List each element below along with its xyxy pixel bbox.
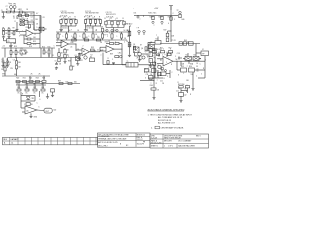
svg-text:K6: K6 [194, 55, 196, 57]
junction right a [155, 61, 156, 62]
resistor RB2 [94, 20, 96, 24]
resistor R22 [29, 81, 33, 83]
transformer T1 [126, 63, 138, 68]
resistor RA0 [60, 20, 62, 24]
wire R12 bottom [10, 55, 12, 58]
wire bus F [26, 83, 80, 85]
junction bus D a [68, 32, 69, 33]
wire U6 -in [100, 50, 106, 52]
company table row lines [98, 136, 151, 138]
svg-text:o: o [26, 16, 27, 18]
wire U1 -in [20, 34, 26, 36]
wire R10 left [24, 38, 27, 40]
wire up to U6 [99, 47, 101, 52]
resistor R50 [152, 51, 156, 53]
svg-text:R43: R43 [150, 17, 153, 19]
resistor R10 [27, 38, 31, 40]
svg-text:5: 5 [22, 12, 23, 14]
wire right edge vert [204, 56, 206, 78]
wire U1 +in [16, 31, 26, 33]
wire to K8 [34, 29, 39, 31]
wire right vert [129, 26, 131, 54]
wire lad1 gnd stem [60, 26, 62, 29]
svg-text:ALL FILTERS OUT: ALL FILTERS OUT [158, 122, 176, 125]
op-amp U1 [26, 30, 33, 37]
relay K7 X mark [134, 47, 140, 53]
wire chain top2 [167, 31, 169, 33]
ground G3 [2, 36, 5, 39]
diode CR3 [161, 67, 163, 69]
wire RC rail [106, 20, 124, 22]
wire drop from U5 [176, 61, 178, 70]
resistor R36 [70, 66, 72, 70]
wire U2 gnd [30, 113, 32, 115]
wire fb left [106, 43, 110, 45]
wire Q3 out [141, 53, 148, 55]
wire RB0 down [85, 23, 87, 26]
wire TP13 stem [138, 33, 140, 35]
svg-text:1K: 1K [59, 34, 61, 36]
wire U2 -in [22, 111, 25, 113]
svg-text:R: R [15, 21, 17, 23]
wire R52 down [166, 52, 168, 57]
svg-text:J1: J1 [1, 10, 3, 12]
wire group1 drop [68, 26, 70, 32]
svg-text:Q2: Q2 [84, 54, 86, 56]
wire tie2 [181, 90, 188, 92]
wire K6 tie [195, 59, 197, 62]
resistor R68 [157, 54, 160, 56]
test point TP4 [8, 28, 10, 30]
revision table midline [3, 140, 98, 142]
wire R1 to C1 [10, 11, 13, 13]
relay K6 X mark [193, 57, 199, 61]
power rail symbol [169, 6, 173, 11]
wire r1-r2 d [42, 83, 44, 90]
svg-text:R23: R23 [36, 78, 39, 80]
wire C15 tail [113, 63, 115, 64]
resistor R38 [68, 83, 72, 85]
svg-text:R2: R2 [20, 9, 22, 11]
svg-text:1K: 1K [95, 34, 97, 36]
svg-text:R44: R44 [159, 17, 162, 19]
svg-text:R21: R21 [23, 78, 26, 80]
wire K5 top stub [187, 53, 189, 57]
resistor RD6 [111, 34, 113, 38]
svg-text:R57 R58: R57 R58 [178, 84, 184, 86]
svg-text:+15: +15 [2, 45, 5, 47]
wire main bus A [2, 47, 56, 49]
wire U3 to U4 [75, 44, 77, 51]
svg-text:2K: 2K [36, 23, 39, 25]
wire C17 stub [152, 49, 155, 51]
wire U6 out [114, 48, 122, 50]
wire down run2 [153, 81, 155, 88]
wire RA rail [61, 18, 76, 20]
svg-text:-: - [133, 8, 134, 10]
wire left drop [16, 22, 18, 28]
svg-text:4.7K: 4.7K [33, 44, 37, 46]
resistor R40 [128, 31, 131, 36]
wire C1 to R2 [14, 11, 19, 13]
svg-text:.05: .05 [70, 47, 72, 49]
svg-text:R9: R9 [13, 28, 15, 30]
resistor R7 [3, 31, 5, 35]
svg-text:C11: C11 [146, 74, 149, 76]
svg-text:OUT: OUT [45, 111, 50, 113]
wire C6 top [79, 53, 81, 55]
junction right b [177, 61, 178, 62]
svg-text:1K: 1K [61, 58, 64, 60]
wire inv node [23, 35, 25, 44]
svg-text:6: 6 [64, 41, 65, 43]
resistor R2 [19, 11, 23, 13]
svg-text:R11: R11 [33, 41, 36, 43]
wire down run [153, 65, 155, 81]
svg-text:K5A: K5A [181, 63, 185, 66]
resistor R28 [41, 89, 45, 91]
ground G22 [9, 45, 12, 48]
svg-text:10K: 10K [18, 67, 22, 69]
svg-text:C3: C3 [31, 17, 33, 19]
op-amp U4 [82, 48, 90, 56]
svg-text:R: R [171, 64, 173, 66]
wire TP14 stem [143, 33, 145, 35]
wire R15 bottom [48, 54, 50, 58]
svg-text:R22: R22 [29, 78, 32, 80]
svg-text:GALION HALCHER: GALION HALCHER [178, 145, 195, 148]
wire R11 to fb [31, 43, 40, 45]
junction bus D right [129, 32, 130, 33]
resistor R66 [64, 54, 66, 58]
relay K7 [134, 47, 140, 53]
resistor R14 [43, 50, 45, 54]
test point TP10 [179, 11, 181, 13]
svg-text:1K: 1K [17, 52, 20, 54]
wire U5 +in [157, 58, 163, 60]
wire bus E [56, 39, 127, 41]
ground G21 [51, 94, 54, 97]
wire C12 gnd [180, 96, 182, 99]
capacitor C18 [153, 62, 156, 65]
svg-text:GRN: GRN [2, 74, 6, 76]
wire main bus B [8, 57, 80, 59]
svg-text:R52: R52 [169, 47, 172, 49]
resistor R39 [110, 42, 114, 44]
svg-text:TP: TP [202, 53, 205, 55]
capacitor C15 [112, 62, 115, 63]
wire down to second bus [24, 12, 26, 16]
wire TP3 to K9 [3, 38, 5, 41]
svg-text:2.: 2. [151, 128, 153, 130]
wire C4 bottom [7, 62, 9, 65]
resistor R26 [25, 89, 29, 91]
svg-text:TP: TP [2, 28, 4, 30]
svg-text:C9: C9 [77, 49, 79, 51]
svg-text:5K: 5K [178, 88, 181, 90]
svg-text:5K: 5K [185, 88, 188, 90]
svg-text:CR: CR [26, 22, 29, 24]
svg-text:R29: R29 [100, 27, 103, 29]
wire ladder rail 1 [21, 95, 35, 97]
svg-text:C10: C10 [149, 67, 152, 69]
capacitor C9 [197, 69, 198, 72]
wire U6 +in [100, 46, 106, 48]
svg-text:1: 1 [98, 36, 99, 38]
svg-text:K7: K7 [140, 45, 142, 47]
wire R57 down [180, 88, 182, 93]
svg-text:o: o [156, 34, 157, 36]
svg-text:+15V: +15V [154, 8, 159, 10]
ground G11 [149, 65, 152, 68]
wire RD2 bottom [74, 38, 76, 40]
resistor R8 [8, 31, 10, 35]
svg-text:1W: 1W [10, 68, 13, 70]
wire out rail [185, 60, 205, 62]
revision table column dividers [10, 137, 97, 144]
svg-text:1K: 1K [12, 52, 15, 54]
wire R56 gnd [150, 63, 152, 65]
junction top bus b [34, 12, 35, 13]
svg-text:1: 1 [71, 36, 72, 38]
wire row2 stub [38, 91, 40, 97]
wire C9 right [199, 69, 206, 71]
svg-text:o: o [157, 80, 158, 82]
wire to Q4 [135, 55, 142, 57]
svg-text:TP: TP [8, 28, 10, 30]
svg-text:o: o [19, 24, 20, 26]
resistor R56 [149, 59, 152, 63]
resistor R21 [23, 81, 27, 83]
wire to gnd [153, 90, 155, 96]
wire inner drop [157, 70, 159, 78]
wire D join [27, 20, 29, 24]
resistor R13 [15, 51, 17, 55]
svg-text:5K: 5K [21, 55, 24, 57]
svg-text:R: R [156, 83, 158, 85]
wire K6 top stub [195, 53, 197, 57]
test point TP13 [138, 30, 140, 32]
diode network D2 [20, 23, 24, 26]
resistor R12 [10, 51, 12, 55]
svg-text:o o: o o [62, 25, 64, 27]
svg-text:1K: 1K [26, 93, 29, 95]
svg-text:5K: 5K [59, 64, 62, 66]
wire row1 [16, 81, 42, 83]
svg-text:C12: C12 [176, 91, 179, 93]
svg-text:J2: J2 [202, 49, 204, 51]
junction right run [154, 80, 155, 81]
resistor RB0 [84, 20, 86, 24]
resistor R11 [27, 43, 31, 45]
ground G4 [7, 36, 10, 39]
svg-text:K9: K9 [8, 41, 10, 43]
wire C16 down [52, 92, 54, 94]
svg-text:o: o [109, 24, 110, 26]
company table col divider [135, 133, 137, 147]
wire K5 down [180, 61, 182, 66]
svg-text:1: 1 [117, 36, 118, 38]
ground G17 [138, 59, 141, 62]
title block frame [150, 134, 209, 148]
test point TP5 [106, 29, 108, 31]
svg-text:R: R [190, 94, 192, 96]
wire TP1 to bus [10, 9, 12, 13]
wire RD2 top [74, 32, 76, 34]
svg-text:B: B [120, 144, 121, 146]
svg-text:R4: R4 [26, 13, 28, 15]
svg-text:R: R [120, 21, 122, 23]
title block row lines [150, 138, 209, 140]
capacitor C16 [51, 89, 55, 92]
wire TP2 to bus [14, 9, 16, 13]
wire K-gnd drop [192, 72, 194, 88]
capacitor C14 [158, 73, 162, 76]
ground G8 [76, 63, 79, 66]
svg-text:R49: R49 [184, 40, 187, 42]
svg-text:5K: 5K [100, 42, 103, 44]
capacitor C17 [149, 48, 152, 51]
svg-text:2: 2 [57, 41, 58, 43]
resistor R16 [15, 61, 17, 64]
wire R42 down [134, 53, 136, 57]
wire bus C [2, 75, 50, 77]
svg-text:1. TEST CONDITIONS 600 OHMS 1: 1. TEST CONDITIONS 600 OHMS 10K AT INPUT [148, 113, 193, 116]
ground G1 [2, 16, 5, 19]
svg-text:600: 600 [74, 81, 77, 83]
svg-text:600: 600 [54, 110, 57, 112]
wire TP10 to R46 [179, 13, 181, 16]
wire inner vert [169, 70, 171, 78]
relay K6 [193, 57, 199, 61]
wire vert top tie [130, 25, 132, 27]
svg-text:MODEL 15: MODEL 15 [137, 134, 145, 136]
svg-text:R: R [117, 18, 119, 20]
capacitor C8 [183, 42, 186, 45]
wire U5 -in [157, 63, 163, 65]
svg-text:T: T [87, 30, 88, 32]
junction right vert [171, 31, 172, 32]
svg-text:1: 1 [183, 73, 184, 75]
svg-text:R: R [155, 58, 157, 60]
svg-text:2K: 2K [31, 74, 34, 76]
resistor R1 [7, 11, 11, 13]
svg-text:5-20-48: 5-20-48 [151, 138, 157, 140]
resistor R44 [161, 16, 163, 19]
capacitor C11 [149, 76, 153, 80]
svg-text:A5: A5 [27, 109, 29, 112]
svg-text:R: R [108, 58, 110, 60]
resistor R67 [161, 72, 167, 75]
svg-text:R54: R54 [189, 66, 192, 68]
svg-text:10K: 10K [191, 74, 195, 76]
svg-text:R42: R42 [129, 45, 132, 47]
svg-text:C: C [200, 63, 202, 65]
resistor R51 [160, 51, 164, 53]
wire Q3 down [139, 56, 141, 59]
svg-text:2: 2 [154, 76, 155, 78]
wire C19 stub [180, 57, 182, 59]
wire RD3 top [83, 32, 85, 34]
svg-text:ALL TONE AND VOL IN 13: ALL TONE AND VOL IN 13 [158, 116, 183, 119]
svg-text:R64: R64 [148, 45, 151, 47]
wire RC2 down [117, 25, 119, 28]
svg-text:600: 600 [14, 74, 17, 76]
svg-text:R: R [53, 55, 55, 57]
svg-text:Q4: Q4 [141, 48, 143, 50]
wire J1 to R1 [3, 11, 6, 13]
notes heading underline [148, 110, 185, 112]
wire R11 left [24, 43, 27, 45]
svg-text:BOOST DB 13: BOOST DB 13 [158, 120, 172, 122]
svg-text:.5: .5 [36, 27, 37, 29]
svg-text:1K: 1K [67, 49, 70, 51]
resistor R25 [17, 89, 21, 91]
resistor R4 [25, 15, 28, 17]
resistor R18 [4, 63, 6, 66]
svg-text:o: o [68, 17, 69, 19]
wire drop1 [29, 76, 31, 80]
svg-text:SPL CON TECHNOLOGY AN ALL WIRE: SPL CON TECHNOLOGY AN ALL WIRE [98, 133, 129, 136]
svg-text:3: 3 [153, 67, 154, 69]
svg-text:R18: R18 [8, 62, 11, 64]
svg-text:C8: C8 [43, 17, 45, 19]
svg-text:R5: R5 [31, 20, 33, 22]
wire R2 to node [23, 11, 34, 13]
wire stage out [95, 51, 100, 53]
svg-text:o: o [187, 65, 188, 67]
svg-text:5: 5 [153, 65, 154, 67]
diode CR4 [165, 70, 167, 72]
svg-text:R69 R70 R71: R69 R70 R71 [106, 14, 116, 16]
capacitor C3 [2, 61, 5, 62]
wire R19 down [4, 71, 6, 76]
svg-text:o o: o o [87, 25, 89, 27]
resistor R70 [26, 103, 30, 106]
wire down to U1 network [16, 16, 18, 20]
svg-text:TP: TP [199, 59, 201, 61]
svg-text:R: R [70, 17, 72, 19]
wire feedback up [39, 16, 41, 34]
svg-text:D1: D1 [22, 17, 24, 19]
revision table frame [3, 137, 98, 144]
svg-text:R24: R24 [42, 78, 45, 80]
wire D1 out [24, 19, 28, 21]
svg-text:2-4: 2-4 [11, 143, 14, 145]
svg-text:R46: R46 [182, 19, 185, 21]
wire group2 drop [92, 26, 94, 32]
relay K8 X mark [39, 27, 44, 31]
resistor RD2 [74, 34, 76, 38]
wire left spine [154, 48, 156, 78]
wire ladder right rail [34, 96, 36, 102]
svg-text:o: o [115, 19, 116, 21]
wire ladder left rail [20, 92, 22, 108]
wire R34 top [58, 48, 60, 53]
wire bus left ext [134, 14, 148, 16]
svg-text:C: C [54, 46, 56, 48]
svg-text:2: 2 [83, 46, 84, 48]
svg-text:R51: R51 [160, 47, 163, 49]
wire bus tie [4, 48, 6, 58]
wire U3 -in [56, 45, 61, 47]
svg-text:Q5: Q5 [157, 65, 159, 67]
wire main right vertical [170, 6, 172, 42]
svg-text:REV: REV [3, 139, 8, 141]
wire TP12 stem [137, 14, 139, 17]
svg-text:CR2: CR2 [118, 53, 121, 55]
wire TP11 in [196, 52, 201, 54]
